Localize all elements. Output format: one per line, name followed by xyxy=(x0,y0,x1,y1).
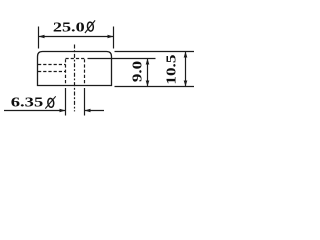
9.0 dimension line with arrows xyxy=(147,59,149,87)
diameter symbol for 25.0 xyxy=(85,20,95,33)
6.35 dimension line left part xyxy=(4,110,66,112)
25.0 left arrow xyxy=(39,35,45,39)
10.5 top arrow xyxy=(184,52,188,58)
bore hidden outline (dashed) xyxy=(66,59,85,86)
centerline xyxy=(74,45,76,112)
body outline (knob side view, rounded top corners) xyxy=(38,52,112,86)
25.0 dimension extension lines xyxy=(39,27,114,49)
svg-text:6.35: 6.35 xyxy=(11,96,43,111)
6.35 right arrow xyxy=(85,109,91,113)
10.5 dimension line with arrows xyxy=(185,52,187,87)
10.5 bottom arrow xyxy=(184,81,188,87)
6.35 left arrow xyxy=(60,109,66,113)
svg-text:25.0: 25.0 xyxy=(53,21,85,36)
25.0 right arrow xyxy=(108,35,114,39)
diameter symbol for 6.35 xyxy=(45,96,55,108)
right side extension lines xyxy=(88,52,195,87)
svg-text:10.5: 10.5 xyxy=(165,55,180,85)
setscrew hidden lines (dashed) xyxy=(38,65,66,72)
9.0 bottom arrow xyxy=(146,81,150,87)
9.0 top arrow xyxy=(146,59,150,65)
25.0 dimension line xyxy=(39,36,114,38)
6.35 hole extension lines below body xyxy=(66,88,85,116)
6.35 dimension line right part xyxy=(85,110,105,112)
svg-text:9.0: 9.0 xyxy=(131,61,146,82)
